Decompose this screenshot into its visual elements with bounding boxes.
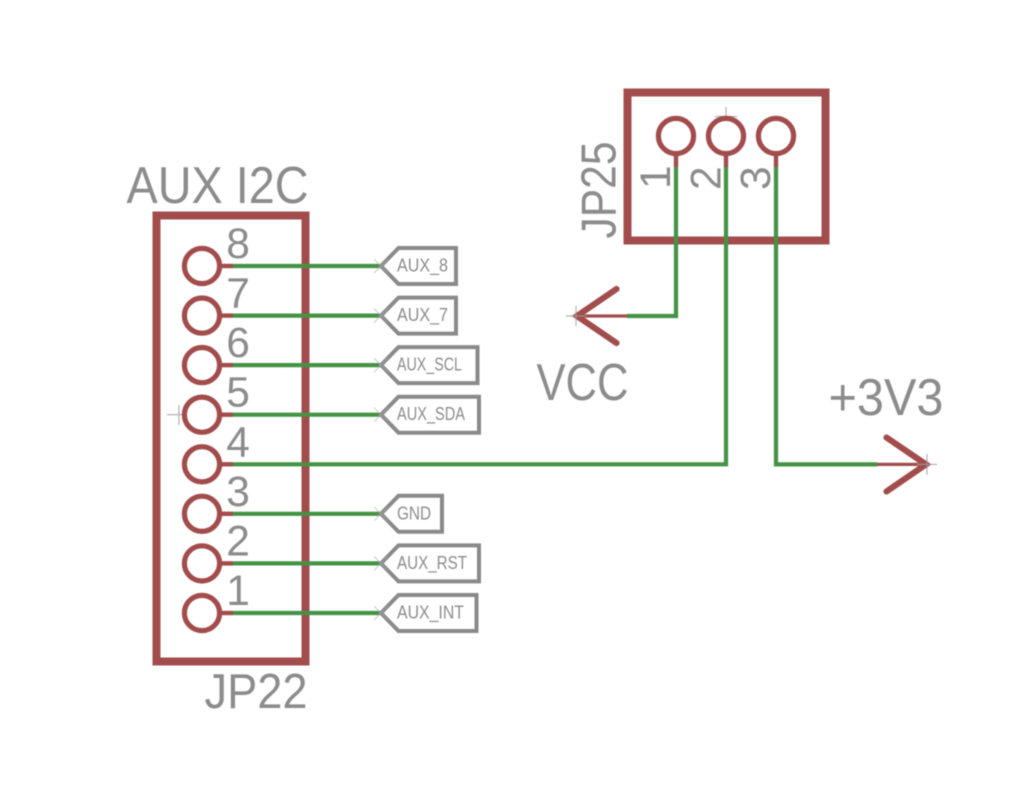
svg-text:7: 7 xyxy=(226,271,250,318)
svg-text:1: 1 xyxy=(226,568,250,615)
wire pin1 to AUX_INT flag xyxy=(233,611,381,615)
JP22 pin stub 8 xyxy=(219,264,233,268)
svg-text:AUX_RST: AUX_RST xyxy=(397,553,467,574)
wire pin8 to AUX_8 flag xyxy=(233,264,381,268)
svg-text:3: 3 xyxy=(226,469,250,516)
JP25 pin stub 3 xyxy=(774,153,778,167)
origin cross of JP25 (above pin 2) xyxy=(715,107,737,128)
VCC origin cross xyxy=(566,306,586,326)
supply symbol +3V3 arrow xyxy=(877,438,926,492)
svg-text:5: 5 xyxy=(226,370,250,417)
svg-text:+3V3: +3V3 xyxy=(829,369,944,427)
origin cross of JP22 (at pin 5) xyxy=(167,405,193,425)
JP22 pin stub 3 xyxy=(219,512,233,516)
net flag AUX_SDA xyxy=(374,397,479,433)
JP22 pin circle 2 xyxy=(184,546,219,581)
net flag AUX_8 xyxy=(374,248,456,284)
connector JP25 body xyxy=(628,93,826,241)
net flag AUX_RST xyxy=(374,545,479,581)
svg-text:2: 2 xyxy=(226,518,250,565)
svg-text:AUX_8: AUX_8 xyxy=(397,256,448,277)
JP22 pin stub 2 xyxy=(219,561,233,565)
JP22 pin stub 1 xyxy=(219,611,233,615)
JP22 pin circle 7 xyxy=(184,298,219,333)
svg-text:AUX_SCL: AUX_SCL xyxy=(397,355,462,376)
JP25 pin circle 2 xyxy=(708,118,743,153)
svg-text:1: 1 xyxy=(633,165,680,189)
JP22 pin stub 7 xyxy=(219,313,233,317)
supply symbol VCC arrow xyxy=(576,289,627,343)
JP22 pin circle 5 xyxy=(184,397,219,432)
svg-text:2: 2 xyxy=(684,166,731,190)
connector JP22 body xyxy=(157,216,306,662)
net flag AUX_SCL xyxy=(374,347,478,383)
wire JP25 pin3 to +3V3 xyxy=(776,167,877,464)
svg-text:GND: GND xyxy=(397,503,431,523)
JP22 pin circle 4 xyxy=(184,447,219,482)
svg-text:AUX_SDA: AUX_SDA xyxy=(397,404,465,425)
JP22 pin circle 1 xyxy=(184,595,219,630)
svg-text:6: 6 xyxy=(226,320,250,367)
JP25 pin stub 1 xyxy=(674,153,678,167)
JP22 pin stub 6 xyxy=(219,363,233,367)
svg-text:AUX_INT: AUX_INT xyxy=(397,603,464,624)
JP25 pin circle 1 xyxy=(658,118,693,153)
svg-text:AUX I2C: AUX I2C xyxy=(127,157,309,215)
net flag GND xyxy=(374,496,442,532)
JP22 pin stub 4 xyxy=(219,462,233,466)
wire pin2 to AUX_RST flag xyxy=(233,561,381,565)
svg-text:JP25: JP25 xyxy=(572,142,627,239)
JP22 pin circle 8 xyxy=(184,248,219,283)
svg-text:4: 4 xyxy=(226,419,250,466)
net flag AUX_INT xyxy=(374,595,477,631)
wire pin4 long horizontal to JP25 pin 2 xyxy=(233,167,726,464)
JP22 pin stub 5 xyxy=(219,413,233,417)
JP25 pin circle 3 xyxy=(758,118,793,153)
JP22 pin circle 3 xyxy=(184,496,219,531)
wire pin5 to AUX_SDA flag xyxy=(233,413,381,417)
svg-text:JP22: JP22 xyxy=(205,664,308,719)
svg-text:3: 3 xyxy=(733,166,780,190)
JP25 pin stub 2 xyxy=(724,153,728,167)
svg-text:AUX_7: AUX_7 xyxy=(397,305,448,326)
svg-text:8: 8 xyxy=(226,221,250,268)
svg-text:VCC: VCC xyxy=(537,354,629,412)
wire JP25 pin1 to VCC xyxy=(627,167,676,316)
+3V3 origin cross xyxy=(917,454,937,475)
JP22 pin circle 6 xyxy=(184,348,219,383)
wire pin3 to GND flag xyxy=(233,512,381,516)
wire pin6 to AUX_SCL flag xyxy=(233,363,381,367)
net flag AUX_7 xyxy=(374,298,456,334)
wire pin7 to AUX_7 flag xyxy=(233,314,381,318)
